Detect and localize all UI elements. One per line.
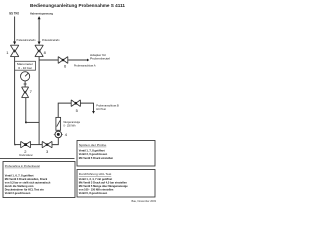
svg-text:Ventil 1, 6, 7, 8 geöffnet: Ventil 1, 6, 7, 8 geöffnet bbox=[5, 173, 34, 177]
svg-text:von 100 - 150 Nl/h einstellen: von 100 - 150 Nl/h einstellen bbox=[79, 187, 114, 191]
info box: Probenahme in Probenbeutel bbox=[3, 162, 75, 198]
svg-text:Bedienungsanleitung Probennahm: Bedienungsanleitung Probennahme S 4111 bbox=[30, 3, 125, 9]
svg-text:0 - 10 bar: 0 - 10 bar bbox=[18, 66, 32, 70]
info box: Spuelen der Probe bbox=[77, 141, 155, 167]
svg-text:GS TK0: GS TK0 bbox=[9, 12, 19, 16]
svg-text:Druckminderer: Druckminderer bbox=[19, 154, 33, 157]
svg-text:Mit Ventil 5 Druck einstellen: Mit Ventil 5 Druck einstellen bbox=[79, 156, 114, 160]
svg-text:Ventil 3, 6 geschlossen: Ventil 3, 6 geschlossen bbox=[79, 152, 108, 156]
wire rotameter riser to valve 5 bbox=[58, 103, 71, 117]
svg-text:durch die Stellung vom: durch die Stellung vom bbox=[5, 184, 34, 188]
manometer label box bbox=[15, 61, 36, 70]
svg-text:Bau, November 2003: Bau, November 2003 bbox=[131, 199, 156, 203]
svg-text:Probenanschluss A: Probenanschluss A bbox=[74, 64, 96, 68]
svg-text:Ventil 6, 8 geschlossen: Ventil 6, 8 geschlossen bbox=[79, 191, 108, 195]
svg-text:HCl Test: HCl Test bbox=[96, 107, 106, 111]
wire line A (valve 1 down to bottom elbow) bbox=[14, 57, 16, 145]
node junction dot bbox=[25, 121, 27, 123]
wire line B top bbox=[38, 19, 40, 42]
svg-text:Mit Ventil 3 Druck auf 4,5 bar: Mit Ventil 3 Druck auf 4,5 bar einstelle… bbox=[79, 180, 127, 184]
wire flowmeter down to bottom line bbox=[52, 138, 58, 145]
wire line A top (GS TK0 down to valve 1) bbox=[14, 17, 16, 42]
valve V7 (vertical) bbox=[22, 87, 29, 98]
wire valve 7 down to junction bbox=[25, 98, 27, 123]
wire line B (valve 8 down to bottom line) bbox=[38, 57, 40, 145]
flow arrow into valve 1 bbox=[13, 42, 16, 45]
svg-text:Hahnentspannung: Hahnentspannung bbox=[30, 12, 53, 16]
svg-text:Ventil 3 geschlossen: Ventil 3 geschlossen bbox=[5, 191, 31, 195]
vent arrow up (Hahnentspannung) bbox=[38, 16, 41, 19]
svg-text:0 - 150 Nl/h: 0 - 150 Nl/h bbox=[64, 124, 76, 128]
svg-text:Probenahme in Probenbeutel: Probenahme in Probenbeutel bbox=[5, 164, 40, 168]
valve V5 (horizontal) bbox=[71, 100, 80, 107]
info box: Durchfuehrung HCL Test bbox=[77, 170, 155, 198]
valve V8 (vertical) bbox=[35, 45, 43, 56]
wire valve 5 to outlet B with down arrow bbox=[80, 103, 93, 111]
wire valve 2 to valve 3 bbox=[31, 144, 43, 146]
svg-text:Probenbeutel: Probenbeutel bbox=[90, 57, 110, 61]
svg-text:Durchführung HCL Test: Durchführung HCL Test bbox=[79, 172, 112, 176]
svg-text:Mit Ventil 5 Menge über Mengen: Mit Ventil 5 Menge über Mengenanzeige bbox=[79, 184, 128, 188]
wire junction to line B bbox=[26, 121, 39, 123]
wire tee to valve 6 bbox=[39, 59, 58, 61]
flowmeter tube (rotameter) bbox=[56, 117, 61, 130]
gauge (manometer) bbox=[21, 72, 30, 81]
svg-text:Ventil 1, 7, 8 geöffnet: Ventil 1, 7, 8 geöffnet bbox=[79, 149, 105, 153]
flowmeter bulb bbox=[55, 131, 62, 138]
wire valve 6 to outlet A with arrow bbox=[68, 59, 87, 61]
svg-text:Mit Ventil 3 Druck abstellen,: Mit Ventil 3 Druck abstellen, Druck bbox=[5, 177, 48, 181]
node elbow dot bbox=[14, 144, 16, 146]
svg-text:Probenahmehahn: Probenahmehahn bbox=[42, 38, 60, 42]
flow arrow into valve 8 bbox=[38, 42, 41, 45]
gauge stem bbox=[24, 81, 26, 87]
svg-text:Ventil 1, 3, 4, 7 mit geöffnet: Ventil 1, 3, 4, 7 mit geöffnet bbox=[79, 177, 112, 181]
svg-text:Probenahmehahn: Probenahmehahn bbox=[17, 38, 37, 42]
valve V2 (horizontal) bbox=[21, 141, 31, 147]
valve V3 (horizontal) bbox=[42, 141, 52, 147]
svg-text:Druckminderer für HCL Test ein: Druckminderer für HCL Test ein bbox=[5, 187, 44, 191]
wire bottom-left elbow to valve 2 bbox=[15, 144, 21, 146]
svg-text:von 0,3 bar er stellt sich aut: von 0,3 bar er stellt sich automatisch bbox=[5, 180, 51, 184]
divider line bbox=[0, 158, 75, 160]
svg-text:Spülen der Probe: Spülen der Probe bbox=[79, 143, 107, 147]
valve V1 (vertical) bbox=[10, 45, 18, 56]
valve V6 (horizontal) bbox=[58, 57, 68, 64]
